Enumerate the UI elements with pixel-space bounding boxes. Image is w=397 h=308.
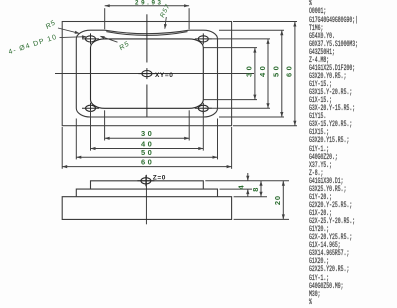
svg-text:30: 30: [245, 64, 254, 77]
dimension 40 bottom: [91, 148, 204, 150]
stock outline rectangle 60x60: [62, 22, 231, 126]
horizontal centerline top view: [55, 73, 254, 75]
svg-text:40: 40: [258, 64, 267, 77]
dimension 20 front: [282, 181, 284, 220]
dimension 29.93 top: [104, 8, 106, 29]
svg-text:R5: R5: [45, 19, 58, 31]
dimension 50 right: [281, 30, 283, 117]
svg-text:40: 40: [141, 139, 154, 148]
svg-text:Z=0: Z=0: [153, 174, 166, 181]
profile 40x40 R5 boss: [91, 39, 204, 108]
svg-text:20: 20: [273, 195, 282, 205]
vertical centerline top view: [146, 14, 148, 62]
hole bottom-left 4mm: [86, 105, 96, 111]
front view top boss 40 wide: [91, 181, 204, 189]
front view middle step 50 wide: [76, 189, 217, 197]
dimension 40 right: [267, 39, 269, 108]
svg-text:29.93: 29.93: [135, 0, 163, 7]
svg-text:8: 8: [251, 187, 260, 192]
origin mark Z=0: [141, 178, 151, 184]
hole top-right 4mm: [198, 36, 208, 42]
svg-text:50: 50: [272, 64, 281, 77]
svg-text:60: 60: [285, 64, 294, 77]
hole top-left 4mm: [86, 36, 96, 42]
extension lines bottom dims: [61, 127, 63, 169]
svg-text:XY=0: XY=0: [155, 72, 173, 79]
svg-text:30: 30: [141, 129, 154, 138]
extension lines right dims: [233, 21, 297, 23]
dimension 30 bottom: [105, 137, 190, 139]
dimension 50 bottom: [76, 156, 217, 158]
extension lines front view dims: [205, 180, 289, 182]
G-code program listing: [309, 0, 358, 306]
front view base block: [62, 197, 231, 220]
dimension 60 bottom: [62, 166, 231, 168]
origin mark XY=0: [142, 71, 152, 77]
dimension 4 front: [247, 173, 249, 181]
lower R57 dip arc (wall lower edge): [106, 32, 187, 36]
svg-text:50: 50: [141, 148, 154, 157]
hole bottom-right 4mm: [198, 105, 208, 111]
front view centerline: [145, 175, 147, 225]
dimension 8 front: [260, 181, 262, 197]
svg-text:R5: R5: [118, 40, 131, 52]
svg-text:4- Ø4 DP 10: 4- Ø4 DP 10: [8, 34, 59, 56]
dimension 60 right: [294, 22, 296, 126]
dimension 30 right: [254, 48, 256, 100]
svg-text:60: 60: [141, 157, 154, 166]
svg-text:4: 4: [236, 184, 245, 189]
profile 50x50 R5 with R57 dip top edge: [76, 30, 217, 117]
